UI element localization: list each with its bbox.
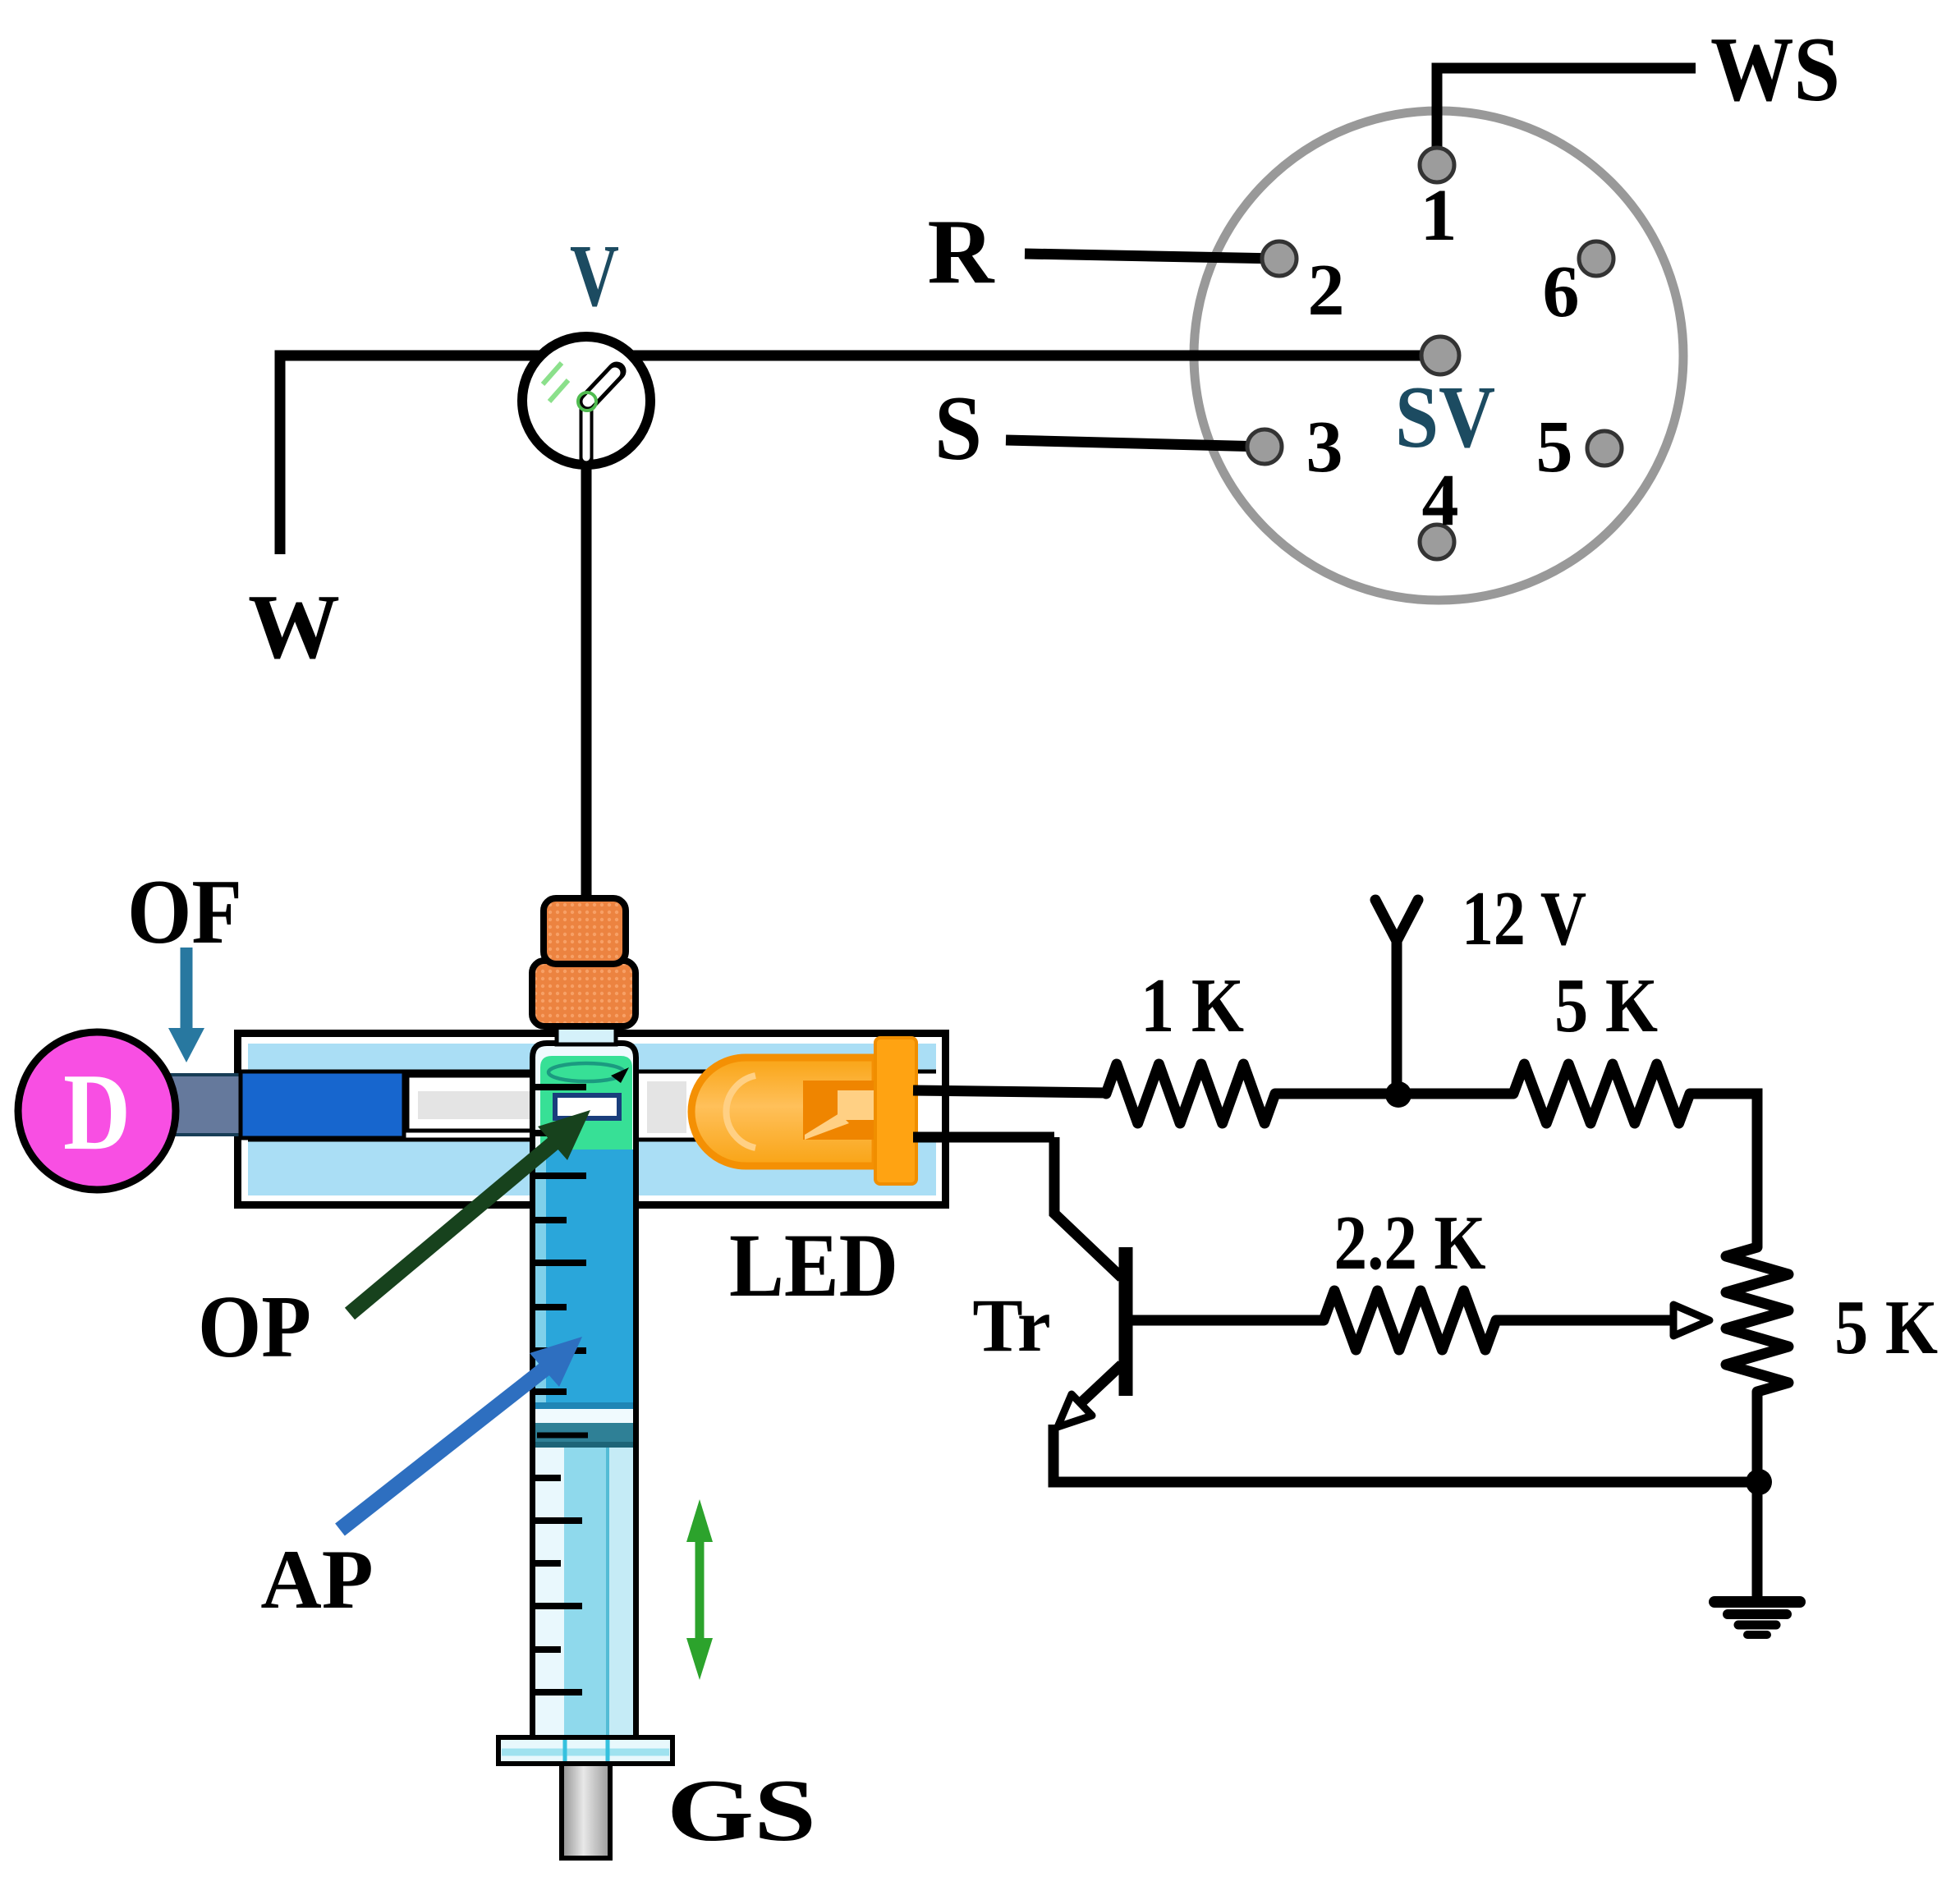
resistor 5K	[1513, 1064, 1690, 1123]
syringe plunger seal	[535, 1423, 633, 1448]
flow cell body	[238, 1034, 946, 1205]
syringe plunger rod	[562, 1764, 610, 1858]
wire valve V down to syringe cap	[581, 401, 592, 902]
port 1	[1420, 148, 1454, 182]
detector D	[18, 1032, 176, 1190]
gray spacer right of syringe	[647, 1081, 686, 1133]
potentiometer 5K	[1726, 1247, 1788, 1392]
syringe rotor (green)	[540, 1056, 632, 1149]
valve V handle	[580, 404, 594, 460]
junction node ground rail	[1746, 1469, 1772, 1495]
wire 2.2K to wiper arrow	[1496, 1315, 1675, 1326]
port 6	[1579, 241, 1613, 276]
12V supply	[1392, 939, 1402, 1094]
emitter arrowhead	[1058, 1394, 1092, 1427]
LED bulb	[691, 1058, 875, 1166]
LED cathode leg	[913, 1132, 1054, 1143]
svg-text:5 K: 5 K	[1554, 963, 1658, 1049]
svg-text:V: V	[570, 227, 619, 325]
syringe optical window	[555, 1095, 619, 1118]
syringe graduations	[534, 1087, 586, 1692]
svg-text:AP: AP	[260, 1533, 373, 1627]
wire pot bottom to junction	[1752, 1392, 1763, 1482]
svg-text:S: S	[934, 378, 982, 480]
syringe plunger shaft	[535, 1448, 633, 1737]
svg-text:OF: OF	[127, 861, 242, 963]
svg-text:1 K: 1 K	[1141, 963, 1244, 1049]
port 2	[1262, 241, 1297, 276]
syringe liquid (blue)	[535, 1149, 633, 1409]
OP arrow	[350, 1136, 562, 1314]
valve V body	[522, 337, 650, 465]
syringe cap	[532, 961, 636, 1026]
ground	[1752, 1482, 1763, 1599]
detector plunger (dark blue)	[241, 1071, 404, 1138]
wire valve V to SV center port	[586, 351, 1440, 361]
resistor 1K	[1106, 1064, 1275, 1123]
LED flange	[875, 1038, 916, 1184]
junction node 12V	[1385, 1081, 1411, 1108]
wire junction to 5K	[1400, 1089, 1513, 1099]
svg-text:2: 2	[1308, 250, 1345, 331]
wiper arrowhead	[1673, 1305, 1710, 1336]
OF arrow	[181, 948, 193, 1033]
center port SV	[1421, 337, 1459, 374]
selection valve SV body	[1194, 111, 1683, 600]
LED reflector	[803, 1081, 875, 1140]
wire emitter down to ground rail	[1053, 1425, 1757, 1482]
wire S to port 3	[1006, 440, 1265, 447]
port 4	[1420, 525, 1454, 559]
svg-text:5 K: 5 K	[1834, 1285, 1938, 1370]
wire W from valve V	[280, 356, 586, 554]
syringe neck	[557, 1023, 616, 1044]
svg-text:D: D	[63, 1051, 131, 1172]
transistor Tr collector wire	[1054, 1137, 1122, 1278]
port 5	[1587, 431, 1622, 466]
svg-text:R: R	[928, 201, 995, 303]
svg-text:2.2 K: 2.2 K	[1334, 1200, 1486, 1286]
piston motion double arrow	[695, 1534, 705, 1647]
svg-text:WS: WS	[1710, 19, 1840, 121]
svg-text:4: 4	[1422, 460, 1459, 541]
wire WS from port 1	[1437, 68, 1696, 165]
transistor Tr base wire to 2.2K	[1131, 1315, 1324, 1326]
svg-text:GS: GS	[667, 1762, 816, 1860]
svg-text:12 V: 12 V	[1462, 876, 1586, 961]
syringe flange	[498, 1737, 672, 1764]
transistor Tr emitter	[1067, 1365, 1122, 1416]
wire R to port 2	[1025, 254, 1279, 259]
svg-text:SV: SV	[1395, 369, 1495, 466]
svg-text:LED: LED	[729, 1215, 898, 1315]
flow cell channel	[248, 1070, 936, 1141]
svg-text:3: 3	[1306, 406, 1343, 488]
optical path white box	[407, 1076, 558, 1131]
svg-text:Tr: Tr	[972, 1283, 1050, 1367]
port 3	[1247, 429, 1282, 464]
svg-text:OP: OP	[198, 1278, 311, 1376]
transistor Tr base bar	[1119, 1247, 1133, 1396]
detector coupling rod	[164, 1075, 241, 1135]
svg-text:W: W	[248, 576, 340, 678]
LED anode leg	[913, 1090, 1106, 1093]
wire LED anode to 1K	[1275, 1089, 1400, 1099]
AP arrow	[340, 1362, 553, 1530]
wire 5K to potentiometer	[1690, 1094, 1757, 1247]
svg-text:1: 1	[1421, 175, 1457, 256]
valve V green motion marks	[543, 363, 562, 384]
svg-text:6: 6	[1543, 251, 1580, 333]
svg-text:5: 5	[1536, 406, 1573, 488]
resistor 2.2K	[1324, 1291, 1496, 1350]
syringe barrel	[533, 1044, 636, 1738]
